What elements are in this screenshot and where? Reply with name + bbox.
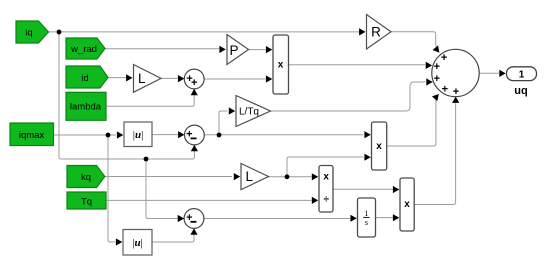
arrow into divide in2 <box>312 197 318 204</box>
wire R to big sum <box>391 32 436 47</box>
wire sum2 branch up to LTq <box>219 111 228 135</box>
svg-text:L: L <box>138 71 146 86</box>
arrow into big sum from product1 <box>426 62 432 69</box>
svg-text:|u|: |u| <box>132 237 143 249</box>
sum1 <box>184 69 204 89</box>
from tag id <box>66 66 108 88</box>
abs block upper <box>124 122 152 147</box>
wire L2 to divide <box>269 176 312 178</box>
svg-text:÷: ÷ <box>323 194 329 205</box>
gain P <box>227 35 249 65</box>
svg-text:L/Tq: L/Tq <box>239 107 259 118</box>
wire abs1 to sum2 <box>152 134 178 136</box>
wire iq to R <box>49 31 361 33</box>
arrow into sum2 west <box>178 131 184 138</box>
product1 <box>273 35 289 94</box>
svg-text:+: + <box>453 86 459 98</box>
gain L/Tq <box>236 96 271 127</box>
wire big sum to outport <box>479 72 499 74</box>
junction dot iqmax line <box>106 133 111 138</box>
svg-text:x: x <box>278 60 284 71</box>
svg-text:w_rad: w_rad <box>70 44 97 55</box>
wire iqmax branch down to abs2 <box>108 135 116 242</box>
arrow into sum1 south <box>191 89 198 95</box>
arrow into big sum from LTq <box>426 78 432 85</box>
arrow into abs1 <box>117 131 123 138</box>
svg-text:+: + <box>442 83 448 95</box>
gain L lower <box>241 164 269 190</box>
wire divide to product3 <box>333 188 393 190</box>
svg-text:P: P <box>229 43 238 58</box>
arrow into big sum from product3 <box>452 97 459 103</box>
arrow into L upper <box>126 74 132 81</box>
big sum circle <box>432 49 479 98</box>
from tag w_rad <box>66 38 105 59</box>
svg-text:uq: uq <box>514 85 527 97</box>
gain L upper <box>134 65 162 93</box>
arrow into sum2 south <box>191 145 198 151</box>
wire product2 to big sum <box>387 100 436 147</box>
sum3 <box>184 209 204 229</box>
wire product3 to big sum south <box>414 103 455 204</box>
from tag iq <box>16 21 49 43</box>
constant Tq <box>67 192 106 209</box>
svg-text:1: 1 <box>519 69 525 80</box>
arrow into product3 in2 <box>393 214 399 221</box>
svg-text:+: + <box>434 61 440 73</box>
arrow into R <box>359 28 365 35</box>
svg-text:kq: kq <box>81 172 91 183</box>
arrow into product3 in1 <box>393 186 399 193</box>
arrow into L lower <box>234 173 240 180</box>
wire abs2 to sum3 south <box>152 235 194 242</box>
wire L1 to sum1 <box>161 77 178 79</box>
arrow into sum1 west <box>178 75 184 82</box>
from tag kq <box>67 166 105 188</box>
wire Tq to divide <box>106 199 312 201</box>
svg-text:x: x <box>404 199 410 210</box>
junction dot iq lower branch <box>144 157 149 162</box>
svg-text:s: s <box>365 218 368 227</box>
wire w_rad to P <box>105 48 219 50</box>
constant lambda <box>66 92 106 120</box>
abs block lower <box>123 230 152 256</box>
arrow into big sum from product2 <box>432 92 442 102</box>
svg-text:R: R <box>371 24 381 39</box>
svg-text:+: + <box>434 73 440 85</box>
arrow into product1 in1 <box>266 46 272 53</box>
svg-text:id: id <box>81 73 88 84</box>
wire sum1 to product1 <box>204 78 265 80</box>
svg-text:|u|: |u| <box>133 129 144 141</box>
arrow into P <box>219 46 225 53</box>
arrow into outport <box>499 70 505 77</box>
constant iqmax <box>10 123 54 146</box>
arrow into sum3 south <box>190 228 197 234</box>
arrow into big sum from R <box>433 45 443 55</box>
sum2 <box>185 125 205 145</box>
svg-text:lambda: lambda <box>70 102 102 113</box>
junction dot iq line <box>57 30 62 35</box>
product2 <box>372 122 387 170</box>
wire lambda to sum1 south <box>105 95 194 106</box>
svg-text:x: x <box>323 171 329 182</box>
divide block <box>319 166 333 213</box>
wire P to product1 <box>249 49 266 51</box>
wire LTq to big sum <box>271 82 426 111</box>
wire kq to L2 <box>105 176 232 178</box>
arrow into product1 in2 <box>266 75 272 82</box>
svg-text:+: + <box>441 52 447 64</box>
gain R <box>367 15 392 50</box>
junction dot L2 out <box>285 174 290 179</box>
svg-text:1: 1 <box>364 209 368 218</box>
wire product1 to big sum <box>289 64 426 66</box>
wire id to L1 <box>108 77 126 79</box>
wire integrator to product3 <box>376 217 394 219</box>
integrator 1/s <box>358 198 376 237</box>
svg-text:+: + <box>191 77 197 89</box>
arrow into product2 in2 <box>364 154 370 161</box>
svg-text:Tq: Tq <box>81 196 92 207</box>
arrow into divide in1 <box>312 173 318 180</box>
wire sum2 to product2 <box>204 134 363 136</box>
svg-text:iqmax: iqmax <box>19 130 45 141</box>
svg-text:L: L <box>245 169 253 184</box>
arrow into integrator <box>350 215 356 222</box>
arrow into product2 in1 <box>364 131 370 138</box>
svg-text:iq: iq <box>25 28 32 39</box>
outport 1 <box>507 67 537 97</box>
svg-text:x: x <box>376 141 382 152</box>
arrow into sum3 west <box>178 215 184 222</box>
wire iqmax to abs1 <box>54 134 116 136</box>
wire iq branch down to sum2 south <box>59 32 194 159</box>
wire iq branch to sum3 west <box>146 159 178 219</box>
wire sum3 to integrator <box>204 218 350 220</box>
wire L2 branch up to product2 <box>287 157 364 177</box>
arrow into abs2 <box>116 238 122 245</box>
arrow into LTq <box>229 107 235 114</box>
product3 <box>400 178 414 231</box>
junction dot sum2 out <box>217 133 222 138</box>
